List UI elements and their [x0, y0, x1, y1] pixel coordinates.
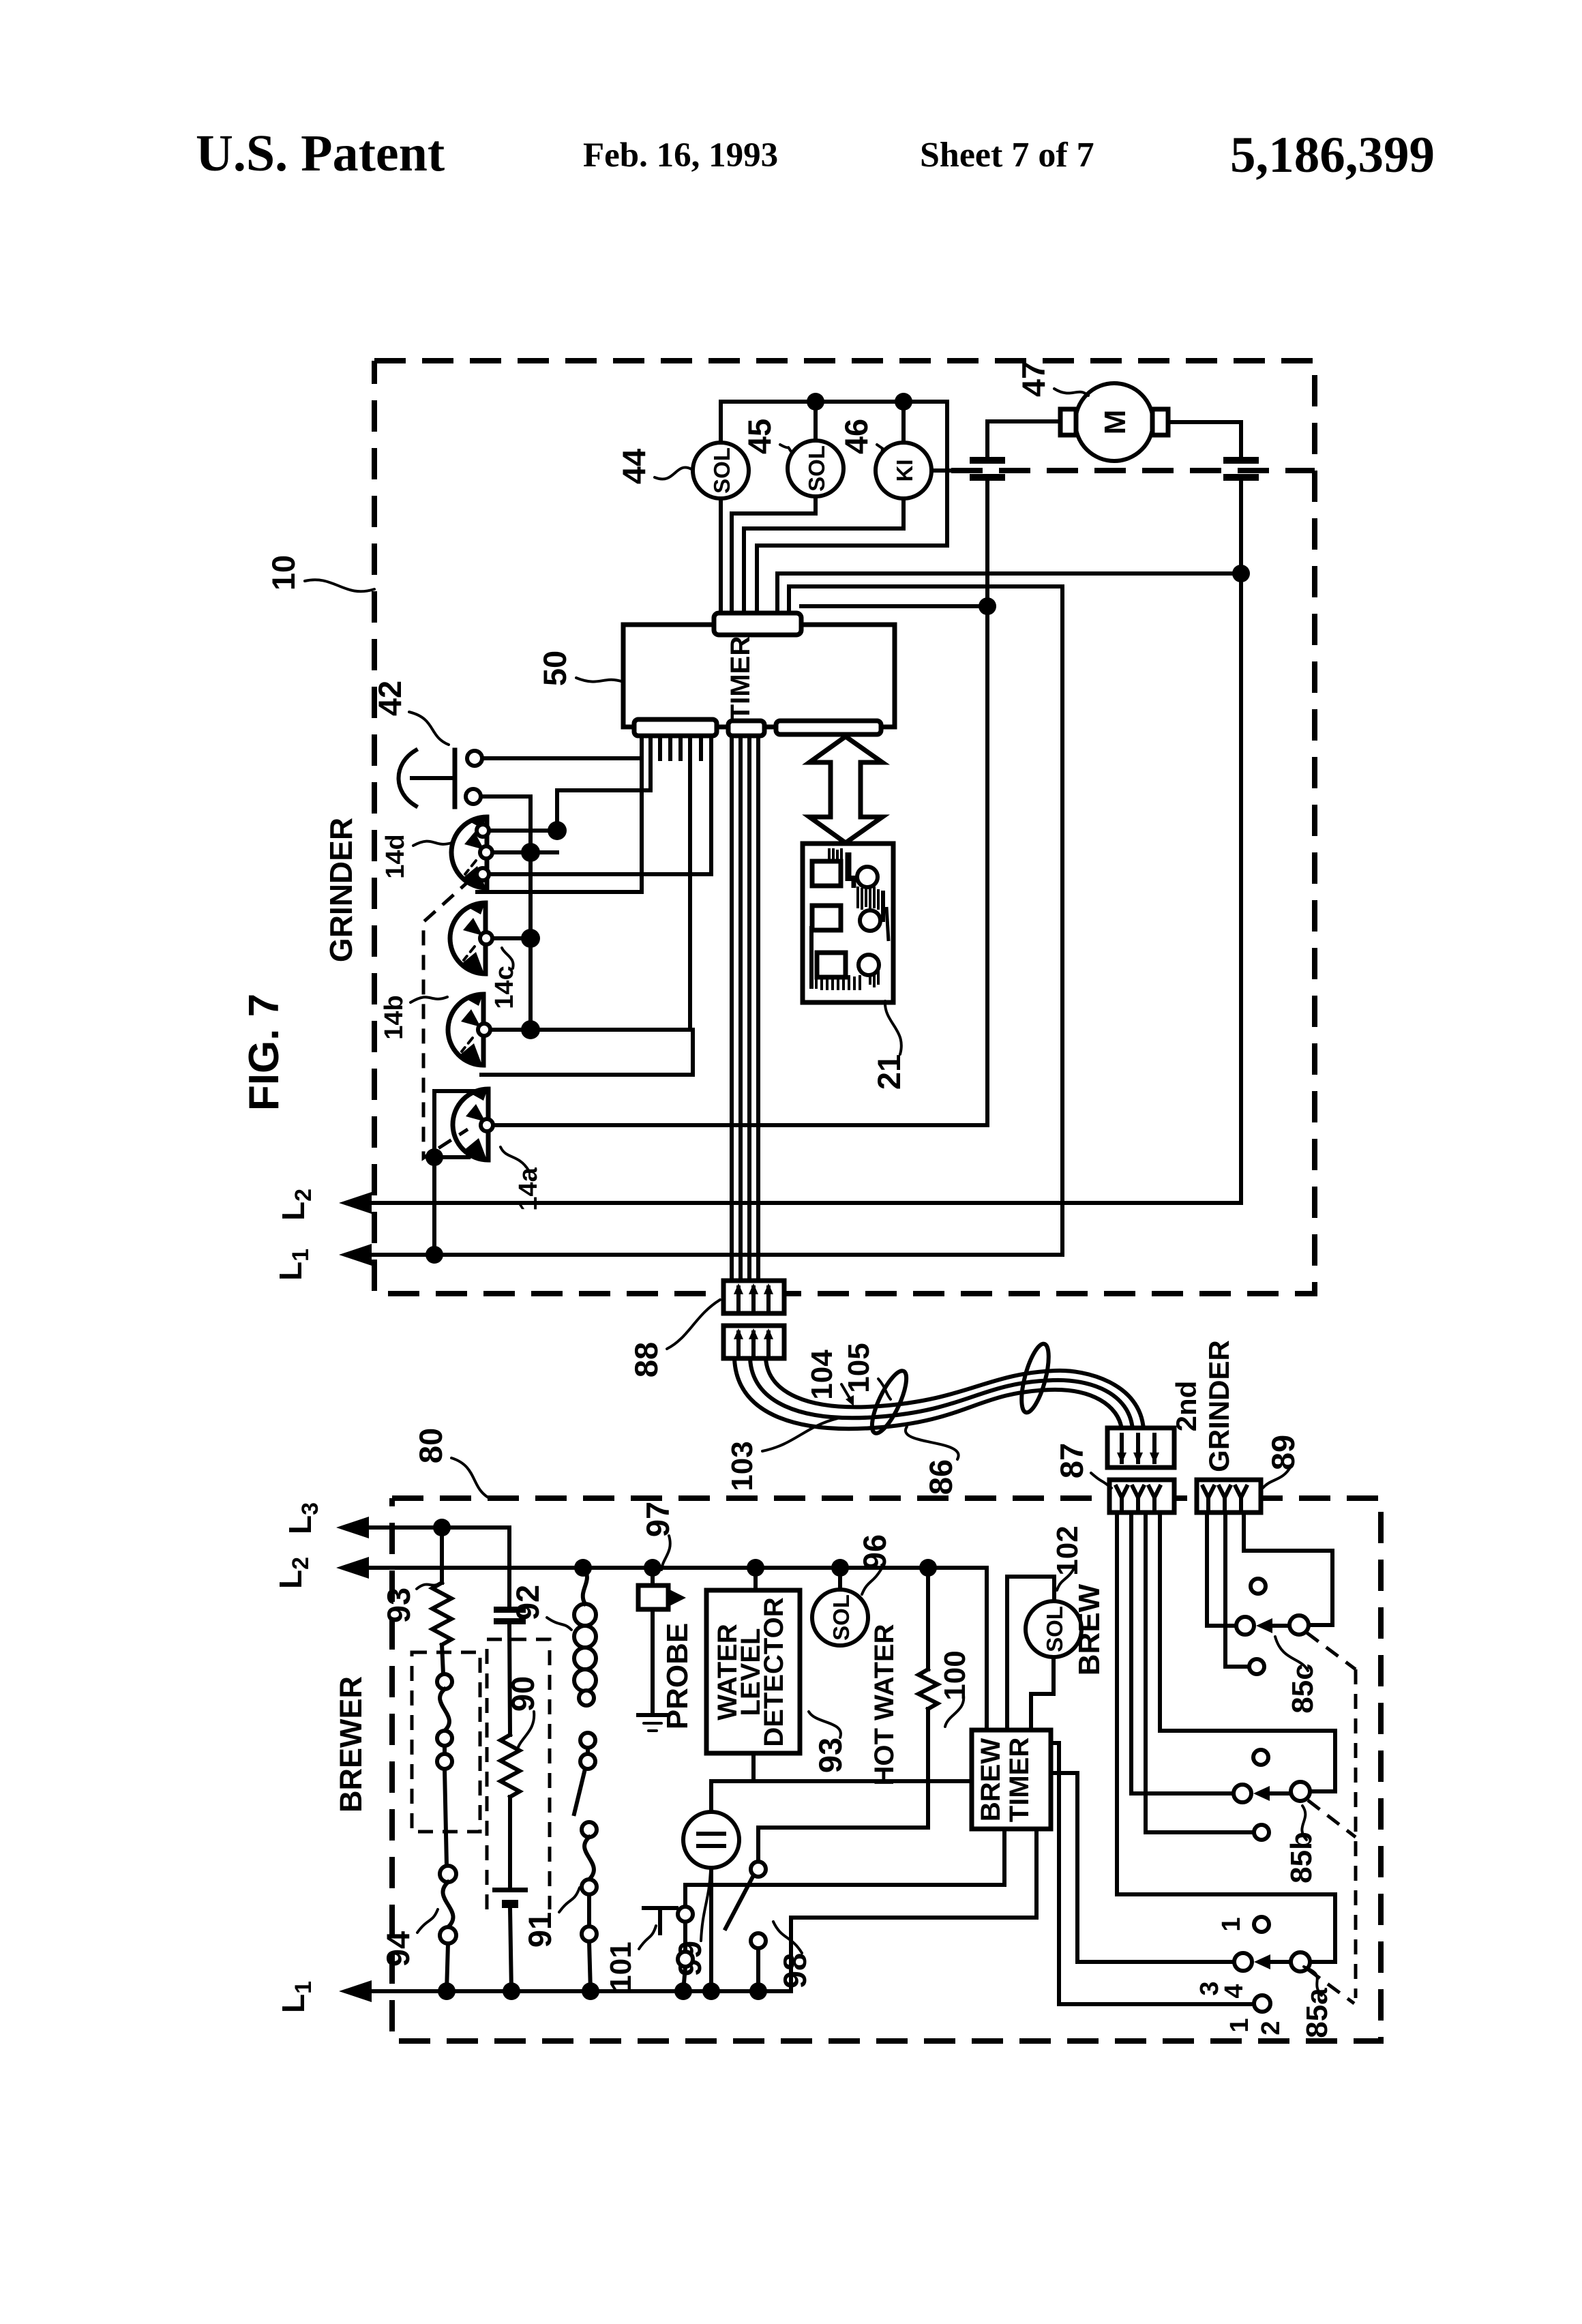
- supply line L1: [339, 1244, 372, 1266]
- svg-text:42: 42: [372, 681, 408, 716]
- svg-text:85a: 85a: [1300, 1988, 1334, 2038]
- svg-text:1: 1: [1225, 2018, 1254, 2032]
- wire harness to connector 88: [730, 736, 734, 1281]
- svg-text:5,186,399: 5,186,399: [1230, 127, 1435, 183]
- mechanical link dashed 85: [1307, 1633, 1356, 1669]
- svg-text:TIMER: TIMER: [726, 636, 756, 721]
- switch chain 91: [579, 1690, 594, 1705]
- enclosure notch dashed line: [951, 468, 1315, 473]
- relay coil K1 46: [876, 443, 931, 498]
- brew timer 100 block: [972, 1730, 1051, 1829]
- node junction: [438, 1982, 456, 2000]
- wire 14a wiper to KI: [494, 606, 987, 1125]
- wire motor left: [987, 421, 1060, 457]
- svg-text:46: 46: [838, 419, 874, 454]
- wire KI top: [901, 402, 906, 443]
- connector 88 lower half: [723, 1326, 784, 1358]
- wire 89 pin2 to 85c aux: [1225, 1513, 1249, 1667]
- wire SOL102 bottom: [1031, 1657, 1054, 1730]
- wire timer right pin A: [777, 573, 1241, 613]
- wire 14b wiper: [490, 1028, 690, 1032]
- svg-text:1: 1: [1217, 1917, 1246, 1931]
- svg-text:45: 45: [741, 419, 777, 454]
- svg-text:86: 86: [923, 1459, 959, 1495]
- cable wire 104: [750, 1358, 1133, 1429]
- svg-text:104: 104: [805, 1350, 839, 1400]
- svg-text:Sheet 7 of 7: Sheet 7 of 7: [920, 136, 1094, 175]
- supply line L2 lower: [336, 1557, 369, 1579]
- mechanical link dashed: [423, 878, 472, 1158]
- svg-text:97: 97: [640, 1502, 676, 1537]
- node junction: [895, 393, 912, 411]
- header: [196, 125, 1435, 183]
- resistor 100: [926, 1568, 930, 1669]
- svg-text:92: 92: [509, 1585, 546, 1620]
- probe 97: [651, 1568, 655, 1585]
- wire timer right pin C: [801, 604, 987, 608]
- svg-text:DETECTOR: DETECTOR: [759, 1597, 789, 1746]
- rotary switch 14c: [450, 903, 492, 974]
- water level detector 93: [706, 1590, 800, 1753]
- connector timer bottom right: [776, 721, 881, 734]
- svg-text:GRINDER: GRINDER: [323, 818, 359, 962]
- supply line L1 lower: [339, 1980, 372, 2002]
- node junction: [503, 1982, 520, 2000]
- wire pin to 42 upper: [640, 736, 644, 892]
- svg-text:21: 21: [871, 1054, 907, 1090]
- wire pin stubs: [658, 736, 662, 759]
- motor M 47: [1075, 383, 1153, 461]
- wire 87 pinA to 85b moving: [1131, 1513, 1234, 1793]
- wire heater bus: [711, 1779, 972, 1783]
- wire 14d bottom: [489, 872, 711, 876]
- keypad buttons: [812, 861, 841, 886]
- svg-text:85b: 85b: [1285, 1832, 1318, 1883]
- node junction: [521, 843, 540, 862]
- svg-text:101: 101: [604, 1941, 638, 1991]
- wire brew timer to 101: [685, 1829, 1004, 1907]
- node junction: [521, 929, 540, 948]
- enclosure box 80 (BREWER unit) dashed border: [392, 1498, 1381, 2041]
- node junction: [574, 1559, 592, 1577]
- solenoid SOL 44: [693, 443, 749, 498]
- switch 94: [440, 1866, 456, 1882]
- solenoid SOL 96: [812, 1590, 868, 1645]
- dashed box around 90: [487, 1639, 550, 1909]
- connector timer top: [714, 613, 801, 635]
- svg-text:14b: 14b: [380, 995, 408, 1039]
- connector plug right: [1223, 457, 1259, 464]
- svg-text:14c: 14c: [490, 966, 519, 1009]
- dashed relay box around 93/94 contacts: [412, 1652, 480, 1832]
- supply line L2: [339, 1192, 372, 1214]
- wire 42 lower to wiper bus: [481, 796, 531, 1030]
- rotary switch 14a: [453, 1089, 493, 1160]
- wire 14d top: [489, 829, 557, 833]
- node junction 101: [674, 1982, 692, 2000]
- svg-text:Feb. 16, 1993: Feb. 16, 1993: [583, 136, 778, 175]
- wire WLD bottom: [751, 1753, 756, 1781]
- wire SOL102 top: [1007, 1577, 1054, 1730]
- wire KI bottom: [744, 498, 904, 613]
- wire brew timer to 85a moving: [1051, 1773, 1234, 1962]
- svg-text:93: 93: [812, 1738, 848, 1773]
- svg-text:90: 90: [505, 1676, 541, 1712]
- svg-text:FIG. 7: FIG. 7: [241, 994, 288, 1111]
- svg-text:85c: 85c: [1286, 1663, 1319, 1713]
- node junction: [521, 1020, 540, 1039]
- svg-text:50: 50: [537, 651, 573, 686]
- wire motor right: [1168, 422, 1241, 457]
- svg-text:BREW: BREW: [976, 1738, 1006, 1821]
- chassis ground: [638, 1713, 667, 1717]
- svg-text:102: 102: [1051, 1525, 1084, 1575]
- connector plug into 2nd grinder cable end: [1107, 1428, 1174, 1468]
- node junction: [426, 1246, 443, 1264]
- svg-text:103: 103: [726, 1441, 759, 1491]
- wire connector to node: [985, 481, 989, 606]
- connector 89 (2nd grinder): [1197, 1480, 1261, 1513]
- wire SOL45 bottom: [732, 496, 816, 613]
- rotary switch 14b: [448, 994, 490, 1065]
- wire 89 pin3 L to 85c fixed: [1244, 1513, 1332, 1625]
- timer block 50: [623, 625, 895, 727]
- svg-text:44: 44: [616, 449, 652, 484]
- wire 14b bottom: [481, 1030, 693, 1075]
- wire pin to 14b cluster: [688, 736, 692, 1030]
- svg-text:TIMER: TIMER: [1004, 1738, 1034, 1823]
- wire 14d link up: [557, 790, 651, 831]
- node junction 98: [749, 1982, 767, 2000]
- wire brew timer to 85a lower: [1051, 1743, 1253, 2004]
- connector timer bottom left: [634, 719, 717, 736]
- cable wire 103: [734, 1358, 1122, 1429]
- wire 14c top: [477, 890, 642, 894]
- wire connector right down: [1239, 481, 1243, 1202]
- solenoid SOL 45: [788, 441, 844, 496]
- svg-text:GRINDER: GRINDER: [1203, 1340, 1235, 1472]
- relay contact set 93: [437, 1674, 452, 1689]
- svg-text:SOL: SOL: [709, 447, 734, 494]
- svg-text:93: 93: [380, 1588, 417, 1623]
- node junction: [548, 821, 567, 840]
- switch 85c: [1251, 1579, 1266, 1594]
- solenoid SOL 102: [1026, 1601, 1081, 1657]
- node junction SOL96: [831, 1559, 849, 1577]
- node junction probe: [644, 1559, 661, 1577]
- svg-text:2: 2: [1257, 2021, 1285, 2035]
- svg-text:BREWER: BREWER: [333, 1676, 368, 1813]
- resistor 90: [501, 1735, 520, 1797]
- svg-text:80: 80: [413, 1428, 449, 1463]
- svg-text:98: 98: [777, 1953, 813, 1988]
- switch 85a: [1254, 1917, 1269, 1932]
- supply line L3: [336, 1517, 369, 1538]
- wire 89 pin1 to 85c moving: [1207, 1513, 1236, 1626]
- wire 14a body loop: [434, 1091, 487, 1255]
- keypad 21: [803, 844, 893, 1002]
- node junction heater: [702, 1982, 720, 2000]
- wire 87 pinC L to 85b fixed: [1160, 1513, 1335, 1791]
- wire 87 pinD L to 85a fixed: [1117, 1513, 1335, 1962]
- battery symbol 90: [492, 1888, 528, 1892]
- svg-text:4: 4: [1220, 1984, 1249, 1998]
- svg-text:47: 47: [1015, 361, 1051, 397]
- resistor 93: [440, 1528, 444, 1583]
- svg-text:10: 10: [265, 555, 301, 591]
- wire 14d wiper: [492, 850, 557, 854]
- svg-text:SOL: SOL: [1042, 1606, 1067, 1652]
- node junction WLD: [747, 1559, 764, 1577]
- cable wire 105: [766, 1358, 1144, 1429]
- svg-text:2nd: 2nd: [1170, 1381, 1202, 1432]
- wire 87 pinB to 85b aux: [1146, 1513, 1254, 1832]
- svg-text:88: 88: [628, 1342, 664, 1377]
- node junction: [426, 1148, 443, 1166]
- switch 98: [751, 1862, 766, 1877]
- wire SOL44 bottom: [719, 498, 723, 613]
- svg-text:94: 94: [380, 1931, 416, 1967]
- connector plug left: [970, 457, 1005, 464]
- svg-text:96: 96: [856, 1534, 893, 1570]
- svg-text:BREW: BREW: [1073, 1583, 1106, 1675]
- svg-text:87: 87: [1054, 1443, 1090, 1478]
- connector timer bottom mid: [728, 721, 764, 736]
- wire SOL45 top: [814, 402, 818, 441]
- connector 88 upper half: [723, 1281, 784, 1313]
- svg-text:SOL: SOL: [829, 1594, 854, 1641]
- svg-text:HOT WATER: HOT WATER: [869, 1624, 899, 1785]
- svg-text:KI: KI: [892, 460, 917, 482]
- heater 99: [709, 1781, 713, 1812]
- push switch 101: [644, 1906, 676, 1910]
- keypad data double arrow: [809, 736, 882, 843]
- svg-text:91: 91: [522, 1912, 558, 1948]
- coil 92: [583, 1568, 587, 1604]
- node junction: [979, 597, 996, 615]
- rotary switch 14d: [451, 817, 492, 888]
- wire timer right pin B: [789, 586, 1062, 1252]
- capacitor 90 plates: [494, 1607, 526, 1613]
- node junction: [807, 393, 824, 411]
- wire 14c wiper: [492, 936, 531, 940]
- node junction resistor 100: [919, 1559, 937, 1577]
- wire KI to connector: [931, 468, 974, 473]
- node junction: [433, 1519, 451, 1536]
- node junction: [582, 1982, 599, 2000]
- wire top bus: [721, 402, 947, 613]
- cable tie loop 86b: [1016, 1341, 1054, 1415]
- svg-text:89: 89: [1265, 1435, 1301, 1470]
- cable tie loop 86a: [865, 1367, 912, 1437]
- svg-text:105: 105: [842, 1343, 876, 1392]
- svg-text:PROBE: PROBE: [661, 1623, 694, 1729]
- switch 42: [453, 750, 458, 807]
- wire leader 10: [305, 580, 374, 591]
- svg-text:M: M: [1099, 410, 1132, 435]
- svg-text:U.S. Patent: U.S. Patent: [196, 125, 445, 182]
- wire pin to 14d bottom: [709, 736, 713, 874]
- svg-text:14d: 14d: [381, 834, 410, 878]
- node junction: [1232, 565, 1250, 582]
- enclosure box 10 (GRINDER unit) dashed border: [374, 361, 1315, 1294]
- wire pin to 14d cluster: [648, 736, 653, 790]
- connector 87: [1109, 1480, 1174, 1513]
- switch 85b: [1253, 1750, 1268, 1765]
- svg-text:SOL: SOL: [804, 445, 829, 492]
- svg-text:100: 100: [938, 1650, 972, 1700]
- wire 42 upper to timer: [482, 756, 642, 760]
